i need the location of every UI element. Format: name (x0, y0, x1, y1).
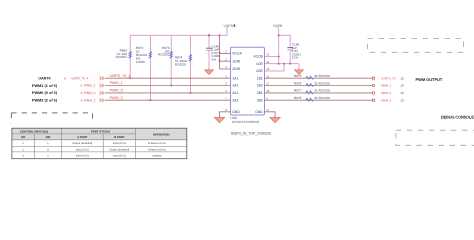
svg-text:14: 14 (266, 60, 270, 64)
svg-text:10: 10 (400, 76, 404, 80)
svg-text:BQFN_05_TOP_ZSR020L: BQFN_05_TOP_ZSR020L (231, 132, 272, 136)
svg-text:VQPS: VQPS (224, 24, 234, 28)
svg-text:PWM_1: PWM_1 (110, 81, 123, 85)
svg-text:1OE: 1OE (256, 62, 264, 66)
svg-text:A data to B bus: A data to B bus (148, 148, 166, 151)
svg-text:R975: R975 (294, 74, 302, 78)
svg-text:VCCA: VCCA (232, 52, 242, 56)
svg-text:CONTROL INPUTS(1): CONTROL INPUTS(1) (20, 129, 48, 133)
svg-text:12%: 12% (292, 56, 298, 60)
svg-text:1B1: 1B1 (257, 76, 263, 80)
svg-text:6: 6 (64, 76, 66, 80)
svg-text:DEBUG CONSOLE: DEBUG CONSOLE (441, 115, 474, 120)
svg-text:GND: GND (232, 110, 240, 114)
svg-text:2OE: 2OE (256, 69, 264, 73)
svg-text:RC0201: RC0201 (319, 74, 331, 78)
svg-text:RC0201: RC0201 (319, 81, 331, 85)
svg-text:R978: R978 (294, 96, 302, 100)
svg-text:6: 6 (81, 84, 83, 88)
svg-text:PWM_1: PWM_1 (84, 84, 96, 88)
svg-text:A PORT: A PORT (77, 135, 88, 139)
svg-text:RC0201: RC0201 (319, 96, 331, 100)
svg-text:PWM_0: PWM_0 (110, 89, 123, 93)
svg-text:Output (Enabled): Output (Enabled) (110, 148, 130, 151)
svg-text:R976: R976 (294, 81, 302, 85)
svg-text:10: 10 (400, 91, 404, 95)
svg-text:R977: R977 (294, 89, 302, 93)
svg-text:PORT STATUS: PORT STATUS (91, 129, 110, 133)
svg-text:PWM_2: PWM_2 (84, 98, 96, 102)
svg-text:PWM_0: PWM_0 (84, 91, 96, 95)
svg-text:B PORT: B PORT (114, 135, 125, 139)
svg-text:33: 33 (314, 81, 318, 85)
svg-text:16: 16 (266, 52, 270, 56)
svg-text:RC0201: RC0201 (319, 89, 331, 93)
svg-text:1/20W: 1/20W (136, 60, 145, 64)
svg-text:2B2: 2B2 (257, 98, 263, 102)
svg-text:GND: GND (255, 110, 263, 114)
svg-text:X: X (47, 155, 49, 158)
svg-text:10: 10 (400, 98, 404, 102)
svg-text:33: 33 (314, 96, 318, 100)
svg-text:PWM0 (0 of 5): PWM0 (0 of 5) (32, 91, 58, 95)
svg-text:Isolation: Isolation (152, 155, 162, 158)
svg-text:Input (Hi-Z): Input (Hi-Z) (76, 155, 89, 158)
svg-text:RC0201: RC0201 (116, 55, 128, 59)
svg-text:DIR: DIR (46, 135, 51, 139)
svg-text:17: 17 (266, 108, 270, 112)
svg-text:10: 10 (400, 84, 404, 88)
svg-text:UART0_TX_A: UART0_TX_A (109, 74, 131, 78)
svg-text:SN74AVC4T245RSVR: SN74AVC4T245RSVR (232, 120, 260, 124)
svg-text:H: H (22, 155, 24, 158)
svg-text:PWM OUTPUT: PWM OUTPUT (416, 77, 443, 82)
svg-text:UART0_TX_A: UART0_TX_A (71, 76, 89, 80)
svg-text:PWM2 (2 of 5): PWM2 (2 of 5) (32, 99, 58, 103)
svg-text:B data to A bus: B data to A bus (148, 142, 166, 145)
svg-text:2B1: 2B1 (257, 91, 263, 95)
svg-text:6: 6 (81, 91, 83, 95)
svg-text:13: 13 (266, 67, 270, 71)
svg-text:Output (Enabled): Output (Enabled) (72, 142, 92, 145)
svg-text:RC0201: RC0201 (175, 63, 187, 67)
svg-text:OE: OE (21, 135, 25, 139)
svg-text:VQPB: VQPB (273, 24, 283, 28)
svg-text:1A2: 1A2 (232, 84, 238, 88)
svg-text:Input (Hi-Z): Input (Hi-Z) (113, 155, 126, 158)
svg-text:UART0_TX: UART0_TX (381, 76, 396, 80)
svg-text:6: 6 (81, 98, 83, 102)
svg-text:1B2: 1B2 (257, 84, 263, 88)
svg-text:1A1: 1A1 (232, 76, 238, 80)
svg-text:H: H (47, 148, 49, 151)
svg-text:2DIR: 2DIR (232, 67, 240, 71)
svg-text:1DIR: 1DIR (232, 59, 240, 63)
svg-text:2A1: 2A1 (232, 91, 238, 95)
svg-text:PWM_2: PWM_2 (381, 98, 392, 102)
svg-text:RC0201: RC0201 (158, 53, 170, 57)
svg-text:5%: 5% (212, 58, 217, 62)
svg-text:Input (Hi-Z): Input (Hi-Z) (113, 142, 126, 145)
svg-text:PWM_1: PWM_1 (381, 84, 392, 88)
svg-text:VCCB: VCCB (253, 55, 263, 59)
svg-text:PWM_2: PWM_2 (110, 96, 123, 100)
svg-text:Input (Hi-Z): Input (Hi-Z) (76, 148, 89, 151)
svg-text:2A2: 2A2 (232, 98, 238, 102)
svg-text:33: 33 (314, 74, 318, 78)
svg-text:OPERATION: OPERATION (153, 132, 169, 136)
svg-text:33: 33 (314, 89, 318, 93)
svg-text:PWM1 (1 of 5): PWM1 (1 of 5) (32, 84, 58, 88)
svg-text:UART0: UART0 (38, 77, 50, 81)
svg-text:PWM_0: PWM_0 (381, 91, 392, 95)
